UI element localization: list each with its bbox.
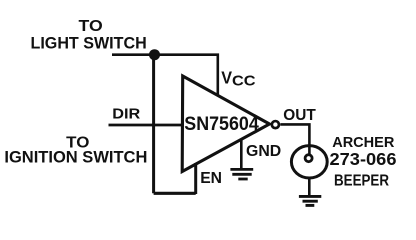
wire GND drop [240,139,243,169]
wire OUT to beeper corner [280,124,309,155]
wire DIR input [109,124,184,127]
svg-text:OUT: OUT [283,107,316,124]
svg-text:EN: EN [200,170,222,187]
node junction dot [149,49,160,60]
svg-text:LIGHT SWITCH: LIGHT SWITCH [31,34,147,52]
svg-text:273-066: 273-066 [330,149,397,169]
svg-text:IGNITION SWITCH: IGNITION SWITCH [4,149,147,167]
ground symbol GND2 [299,196,321,205]
svg-text:V: V [221,68,232,88]
wire EN riser [194,163,197,194]
svg-text:DIR: DIR [112,106,140,123]
beeper inner circle [305,155,312,162]
svg-text:TO: TO [79,18,103,35]
wire beeper to ground [308,179,311,196]
ground symbol GND1 [230,169,253,179]
svg-text:GND: GND [246,143,281,160]
beeper outer circle [291,146,327,178]
wire from light switch to Vcc corner [112,55,218,97]
svg-text:CC: CC [232,73,256,90]
wire junction vertical down [152,55,155,194]
output inversion bubble [272,121,279,128]
svg-text:SN75604: SN75604 [184,113,259,135]
op-amp U1 driver triangle SN75604 [182,76,269,172]
wire bottom horizontal [154,192,196,195]
svg-text:BEEPER: BEEPER [334,173,389,190]
